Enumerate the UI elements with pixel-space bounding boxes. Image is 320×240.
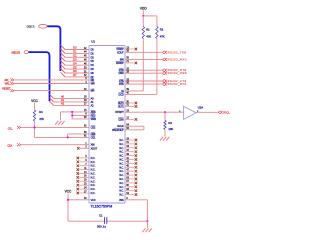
svg-text:N.C.: N.C. <box>119 162 124 165</box>
svg-text:N.C.: N.C. <box>91 161 96 164</box>
svg-text:RCLK: RCLK <box>117 124 124 128</box>
svg-text:C1: C1 <box>99 214 103 218</box>
svg-text:R4: R4 <box>39 110 43 114</box>
svg-text:VCC: VCC <box>31 99 38 103</box>
svg-text:N.C.: N.C. <box>91 184 96 187</box>
svg-text:U2A: U2A <box>198 105 203 109</box>
svg-text:005.1u: 005.1u <box>97 224 106 228</box>
svg-text:DB[0:7]: DB[0:7] <box>27 24 35 28</box>
svg-text:N.C.: N.C. <box>119 143 124 146</box>
svg-text:XIN: XIN <box>91 143 95 147</box>
svg-text:N.C.: N.C. <box>91 180 96 183</box>
svg-text:N.C.: N.C. <box>119 194 124 197</box>
svg-text:N.C.: N.C. <box>91 192 96 195</box>
svg-text:SOUT: SOUT <box>117 50 124 54</box>
svg-text:INTRPT: INTRPT <box>115 110 124 114</box>
svg-text:N.C.: N.C. <box>119 174 124 177</box>
svg-text:N.C.: N.C. <box>119 170 124 173</box>
svg-text:RS232_RTS: RS232_RTS <box>168 82 187 86</box>
svg-text:RXRDY: RXRDY <box>116 62 124 65</box>
svg-text:VSS: VSS <box>119 198 124 202</box>
svg-text:47K: 47K <box>160 34 165 38</box>
svg-text:R1: R1 <box>146 27 150 31</box>
svg-text:CS_: CS_ <box>8 126 13 130</box>
svg-text:N.C.: N.C. <box>119 166 124 169</box>
svg-text:TL16C750PM: TL16C750PM <box>91 204 113 208</box>
svg-text:XOUT: XOUT <box>91 146 98 150</box>
svg-text:N.C.: N.C. <box>91 173 96 176</box>
svg-text:RESET: RESET <box>2 87 11 91</box>
svg-text:RS232_TXD: RS232_TXD <box>168 50 187 54</box>
svg-text:SIN: SIN <box>120 57 124 61</box>
svg-text:VCC: VCC <box>65 190 72 194</box>
svg-text:CLK: CLK <box>7 143 12 147</box>
svg-text:N.C.: N.C. <box>91 169 96 172</box>
svg-text:N.C.: N.C. <box>91 157 96 160</box>
svg-text:47K: 47K <box>146 34 151 38</box>
svg-text:IRQ_: IRQ_ <box>223 110 231 114</box>
svg-text:VDD: VDD <box>140 6 147 10</box>
svg-text:N.C.: N.C. <box>119 147 124 150</box>
svg-text:10K: 10K <box>168 127 173 131</box>
svg-text:R3: R3 <box>168 121 172 125</box>
svg-text:VCC: VCC <box>91 198 96 202</box>
svg-text:R2: R2 <box>160 27 164 31</box>
svg-text:U1: U1 <box>91 39 95 43</box>
svg-text:N.C.: N.C. <box>119 182 124 185</box>
svg-text:N.C.: N.C. <box>91 176 96 179</box>
svg-text:N.C.: N.C. <box>119 178 124 181</box>
svg-text:RD_: RD_ <box>5 78 11 82</box>
svg-text:WR_: WR_ <box>5 81 11 85</box>
svg-text:DDIS: DDIS <box>118 118 124 121</box>
svg-text:AB[0:15]: AB[0:15] <box>11 50 20 54</box>
svg-text:N.C.: N.C. <box>91 188 96 191</box>
svg-text:N.C.: N.C. <box>119 139 124 142</box>
svg-text:N.C.: N.C. <box>119 186 124 189</box>
svg-text:OUT2: OUT2 <box>118 105 125 108</box>
svg-text:N.C.: N.C. <box>119 151 124 154</box>
svg-text:N.C.: N.C. <box>91 165 96 168</box>
svg-text:N.C.: N.C. <box>119 159 124 162</box>
svg-text:BAUDOUT: BAUDOUT <box>112 128 124 132</box>
svg-text:47K: 47K <box>39 117 44 121</box>
svg-text:RS232_RXD: RS232_RXD <box>168 57 187 61</box>
svg-text:N.C.: N.C. <box>119 155 124 158</box>
svg-text:RS232_DSR: RS232_DSR <box>168 71 187 75</box>
svg-text:N.C.: N.C. <box>119 190 124 193</box>
